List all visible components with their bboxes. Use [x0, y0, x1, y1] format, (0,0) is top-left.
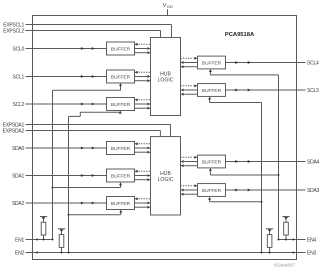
wires buffer SCL2 to hub	[135, 98, 151, 109]
wires hub to buffer SDA3	[181, 184, 198, 195]
SCL3 pin wire	[226, 88, 319, 94]
svg-text:EN4: EN4	[307, 238, 316, 244]
EN1 to SCL1 buffer enable wire	[53, 83, 122, 90]
svg-text:BUFFER: BUFFER	[111, 201, 131, 207]
svg-text:EXPSCL2: EXPSCL2	[3, 29, 24, 35]
svg-text:EN1: EN1	[15, 238, 24, 244]
EXPSCL1 pin wire	[3, 23, 171, 38]
wires buffer SCL1 to hub	[135, 71, 151, 82]
svg-text:EN3: EN3	[307, 251, 316, 257]
SDA4 pin wire	[226, 160, 320, 166]
wires hub to buffer SDA4	[181, 156, 198, 167]
EN1 to SDA1 buffer enable wire	[52, 182, 122, 188]
svg-text:LOGIC: LOGIC	[158, 78, 174, 84]
EN4 to SCL4 buffer enable wire	[209, 69, 279, 75]
buffer SDA0	[107, 142, 135, 155]
EXPSDA2 pin wire	[3, 129, 161, 137]
wires hub to buffer SCL4	[181, 57, 198, 68]
part name PCA9518A	[225, 32, 255, 38]
svg-text:BUFFER: BUFFER	[111, 102, 131, 108]
svg-text:BUFFER: BUFFER	[111, 74, 131, 80]
svg-text:BUFFER: BUFFER	[202, 188, 222, 194]
EN3 to SDA3 buffer enable wire	[208, 197, 262, 203]
buffer SCL2	[107, 98, 135, 111]
svg-text:BUFFER: BUFFER	[202, 60, 222, 66]
SCL0 pin wire	[12, 47, 106, 53]
buffer SCL1	[107, 70, 135, 83]
svg-text:SCL4: SCL4	[307, 61, 319, 67]
svg-text:SCL3: SCL3	[307, 88, 319, 94]
svg-text:SCL2: SCL2	[12, 102, 24, 108]
svg-text:SDA0: SDA0	[12, 146, 25, 152]
svg-text:V: V	[163, 3, 167, 9]
EN3 riser wire	[261, 103, 263, 254]
buffer SCL4	[198, 56, 226, 69]
svg-text:DD: DD	[167, 4, 173, 9]
wires buffer SDA1 to hub	[135, 170, 151, 181]
svg-text:SDA4: SDA4	[307, 160, 320, 166]
svg-text:BUFFER: BUFFER	[202, 88, 222, 94]
EN2 riser wire	[68, 116, 70, 253]
wires hub to buffer SCL3	[181, 84, 198, 95]
hub logic U2 (SDA)	[151, 137, 181, 215]
svg-text:SDA3: SDA3	[307, 188, 320, 194]
buffer SDA1	[107, 169, 135, 182]
SCL2 pin wire	[12, 102, 106, 108]
pull-up resistor R3 (EN3)	[266, 229, 273, 254]
svg-text:SDA1: SDA1	[12, 174, 25, 180]
buffer SDA4	[198, 155, 226, 168]
EXPSDA1 pin wire	[3, 123, 171, 137]
buffer SDA2	[107, 197, 135, 210]
EXPSCL2 pin wire	[3, 29, 160, 38]
svg-text:SCL1: SCL1	[12, 75, 24, 81]
VDD pin	[163, 3, 173, 15]
svg-text:EXPSDA2: EXPSDA2	[3, 129, 25, 135]
svg-text:002aab067: 002aab067	[274, 263, 296, 268]
EN2 EN3 pin wire	[15, 251, 316, 257]
svg-text:PCA9518A: PCA9518A	[225, 32, 255, 38]
svg-text:BUFFER: BUFFER	[111, 46, 131, 52]
chip outline PCA9518A	[33, 16, 297, 260]
svg-text:EN2: EN2	[15, 251, 24, 257]
EN1 pin wire	[15, 238, 52, 244]
SDA3 pin wire	[226, 188, 320, 194]
figure id text	[274, 263, 296, 268]
SDA2 pin wire	[12, 201, 107, 207]
svg-text:SDA2: SDA2	[12, 201, 25, 207]
SDA0 pin wire	[12, 146, 107, 152]
buffer SCL3	[198, 84, 226, 97]
wires buffer SCL0 to hub	[135, 43, 151, 54]
EN3 to SCL3 buffer enable wire	[208, 97, 261, 103]
buffer SCL0	[107, 42, 135, 55]
SDA1 pin wire	[12, 174, 107, 180]
pull-up resistor R4 (EN4)	[282, 217, 289, 241]
wires buffer SDA2 to hub	[135, 197, 151, 208]
hub logic U1 (SCL)	[151, 38, 181, 116]
buffer SDA3	[198, 184, 226, 197]
SCL1 pin wire	[12, 75, 106, 81]
EN2 to SCL2 buffer enable wire	[69, 111, 122, 117]
wires buffer SDA0 to hub	[135, 142, 151, 153]
SCL4 pin wire	[226, 61, 319, 67]
EN4 to SDA4 buffer enable wire	[209, 168, 280, 176]
EN2 to SDA2 buffer enable wire	[68, 210, 123, 216]
svg-text:BUFFER: BUFFER	[111, 173, 131, 179]
svg-text:BUFFER: BUFFER	[202, 159, 222, 165]
svg-text:LOGIC: LOGIC	[158, 177, 174, 183]
pull-up resistor R1 (EN1)	[40, 217, 47, 241]
svg-text:SCL0: SCL0	[12, 47, 24, 53]
EN4 pin wire	[279, 238, 317, 244]
svg-text:BUFFER: BUFFER	[111, 146, 131, 152]
EN4 riser wire	[278, 75, 280, 241]
pull-up resistor R2 (EN2)	[58, 229, 65, 254]
EN1 riser wire	[52, 90, 54, 240]
